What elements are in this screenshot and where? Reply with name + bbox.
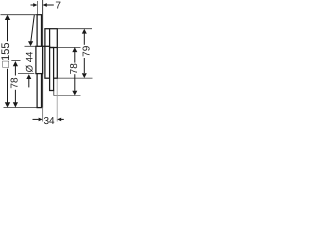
svg-text:Ø 44: Ø 44 (24, 51, 35, 72)
svg-text:78: 78 (69, 63, 80, 75)
svg-text:34: 34 (43, 116, 55, 127)
svg-text:78: 78 (10, 77, 21, 89)
svg-text:□155: □155 (0, 43, 12, 68)
svg-text:7: 7 (55, 1, 61, 12)
svg-text:79: 79 (81, 45, 92, 57)
